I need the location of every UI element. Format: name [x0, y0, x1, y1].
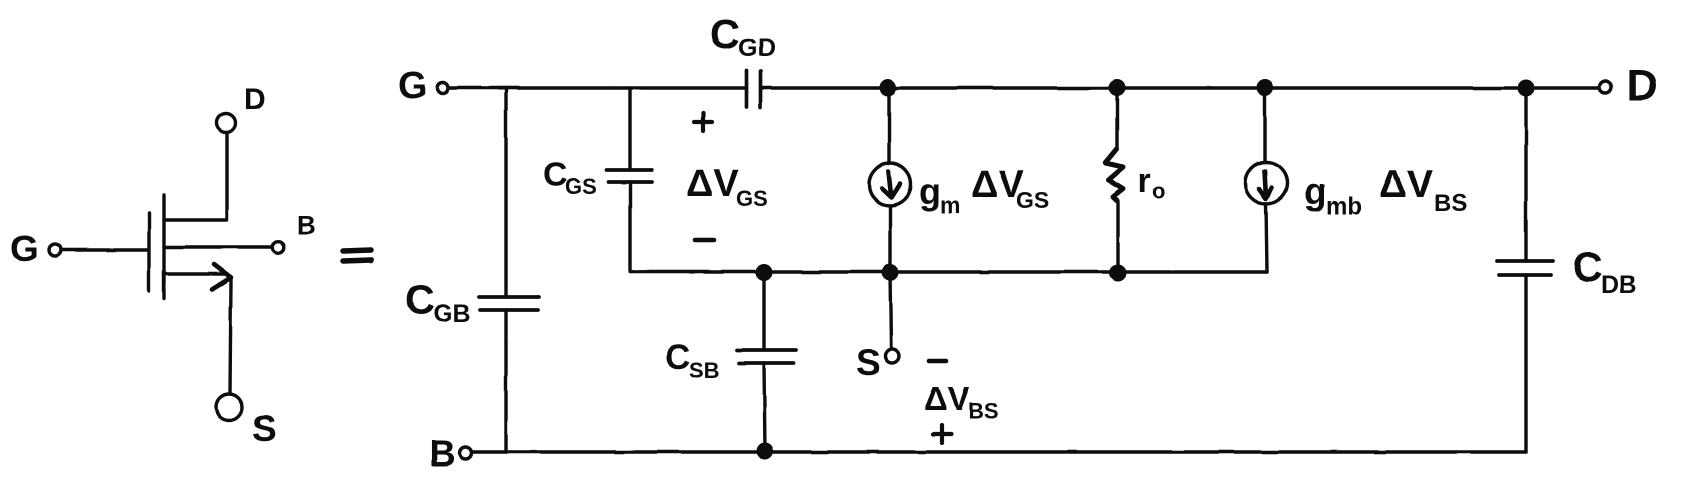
label gm dVGS — [919, 164, 1049, 218]
node dot ro top — [1110, 81, 1124, 95]
capacitor CSB label — [665, 338, 720, 383]
svg-text:B: B — [297, 210, 316, 240]
svg-text:ΔV: ΔV — [1379, 163, 1433, 206]
gate bar — [147, 213, 150, 291]
source stub wire with arrow — [164, 272, 227, 275]
svg-text:C: C — [1573, 244, 1603, 290]
terminal B circle (bottom) — [460, 447, 472, 459]
capacitor CGD plates — [747, 71, 761, 108]
node dot gm bottom — [883, 266, 897, 280]
svg-text:GS: GS — [1016, 187, 1049, 213]
terminal S circle — [216, 394, 242, 420]
node S label (right) — [856, 342, 881, 383]
terminal G circle (left) — [49, 244, 61, 256]
svg-text:C: C — [405, 277, 435, 323]
minus sign (dVGS) — [695, 238, 714, 243]
capacitor CGS label — [543, 156, 597, 199]
terminal S circle (right) — [885, 349, 899, 363]
source wire down — [230, 279, 231, 394]
capacitor CDB label — [1573, 244, 1637, 299]
channel bar — [162, 195, 165, 299]
wire: top rail CGD to D — [761, 86, 1600, 89]
svg-text:G: G — [10, 228, 39, 269]
svg-text:ΔV: ΔV — [686, 163, 739, 205]
wire: gm source upper — [887, 88, 890, 164]
minus sign (dVBS) — [929, 359, 946, 364]
terminal D circle — [217, 114, 236, 133]
current source gm circle — [869, 164, 911, 206]
capacitor CGB plates — [479, 297, 539, 310]
capacitor CSB plates — [737, 350, 796, 363]
current source gmb circle — [1245, 162, 1287, 204]
node D label (left) — [244, 83, 266, 116]
wire: S terminal stub — [890, 272, 891, 349]
node dot CSB top — [757, 266, 771, 280]
body stub wire — [164, 245, 272, 248]
wire: ro upper — [1115, 88, 1118, 148]
label gmb dVBS — [1304, 163, 1467, 220]
svg-text:o: o — [1152, 178, 1165, 203]
node dot gm top — [881, 81, 895, 95]
svg-text:GS: GS — [565, 174, 597, 199]
node S label (left) — [252, 408, 277, 449]
drain stub wire — [164, 133, 227, 220]
terminal G circle (right) — [438, 83, 449, 94]
plus sign (dVBS) — [933, 425, 951, 443]
node dot CSB bottom — [758, 444, 772, 458]
capacitor CGB label — [405, 277, 471, 328]
resistor ro zigzag — [1105, 149, 1123, 201]
wire: gm source lower — [888, 206, 891, 273]
label ro — [1138, 162, 1165, 203]
node G label (left) — [10, 228, 39, 269]
svg-text:DB: DB — [1601, 271, 1637, 299]
svg-text:m: m — [940, 192, 960, 218]
svg-text:SB: SB — [689, 358, 720, 383]
node G label (right) — [398, 65, 428, 107]
node dot ro bottom — [1111, 266, 1125, 280]
node B label (bottom) — [429, 433, 456, 474]
wire: ro lower — [1116, 202, 1119, 273]
svg-text:ΔV: ΔV — [924, 380, 970, 417]
current source gmb arrow — [1259, 171, 1272, 199]
svg-text:GS: GS — [736, 186, 768, 211]
svg-text:D: D — [244, 83, 266, 116]
terminal B circle — [272, 241, 284, 253]
wire: CDB branch upper — [1524, 88, 1527, 261]
label dVGS — [686, 163, 768, 211]
svg-text:S: S — [856, 342, 881, 383]
capacitor CGS plates — [606, 170, 652, 182]
svg-text:g: g — [1304, 171, 1327, 212]
wire: CGB branch lower — [504, 310, 507, 452]
svg-text:BS: BS — [968, 398, 999, 423]
equals sign — [343, 250, 371, 261]
svg-text:S: S — [252, 408, 277, 449]
node dot gmb top — [1258, 81, 1272, 95]
wire: bottom rail — [472, 450, 1526, 453]
svg-text:C: C — [665, 338, 690, 377]
svg-text:GB: GB — [433, 300, 471, 328]
wire: CSB branch upper — [762, 272, 765, 350]
wire: CSB branch lower — [764, 363, 765, 452]
wire: gmb source upper — [1263, 88, 1266, 162]
current source gm arrow — [882, 172, 901, 198]
wire: top rail G to CGD — [449, 86, 746, 89]
svg-text:G: G — [398, 65, 428, 107]
svg-text:C: C — [543, 156, 568, 194]
wire: CGS branch lower to inner rail — [630, 182, 1267, 272]
wire: CDB branch lower — [1524, 275, 1527, 452]
svg-text:BS: BS — [1434, 190, 1467, 217]
node D label (right) — [1626, 61, 1658, 110]
svg-text:D: D — [1626, 61, 1658, 110]
svg-text:mb: mb — [1326, 193, 1362, 220]
label dVBS — [924, 380, 999, 423]
svg-text:r: r — [1138, 162, 1151, 200]
capacitor CDB plates — [1497, 261, 1553, 275]
wire: CGS branch upper — [628, 88, 631, 170]
gate wire — [61, 248, 147, 251]
terminal D circle (right) — [1599, 81, 1611, 93]
node dot CDB top — [1519, 81, 1533, 95]
capacitor CGD label — [710, 11, 776, 62]
node B label (left) — [297, 210, 316, 240]
svg-text:GD: GD — [738, 34, 776, 62]
svg-text:C: C — [710, 11, 740, 57]
wire: CGB branch upper — [504, 88, 507, 297]
svg-text:B: B — [429, 433, 456, 474]
svg-text:g: g — [919, 171, 941, 212]
plus sign (dVGS) — [694, 113, 712, 131]
wire: gmb source lower — [1266, 204, 1267, 272]
